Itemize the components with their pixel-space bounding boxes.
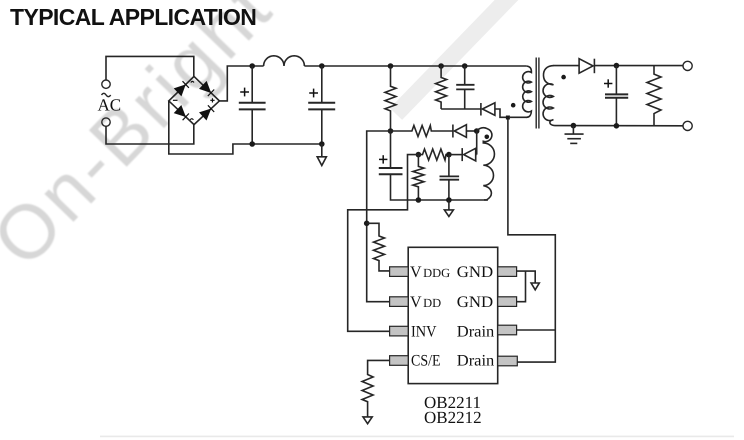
wire bridge negative to bottom rail: [169, 101, 322, 154]
resistor R3 to VDDG: [367, 223, 390, 271]
svg-text:GND: GND: [457, 294, 493, 311]
resistor R8 load: [647, 66, 661, 126]
snubber bottom wire: [441, 108, 481, 110]
capacitor C6 output: [605, 66, 628, 126]
wire AC neutral bottom: [106, 125, 194, 144]
INV feedback trace: [348, 155, 419, 332]
C1 plus sign: [240, 88, 249, 97]
pin CS/E box: [390, 356, 409, 366]
wire AC live top: [106, 56, 194, 80]
svg-text:Drain: Drain: [457, 323, 495, 340]
svg-text:On-Bright: On-Bright: [0, 0, 289, 283]
capacitor C1: [239, 66, 266, 144]
capacitor C5: [440, 155, 460, 200]
resistor R1 vertical under rail: [385, 66, 396, 131]
pin GND2 box: [498, 297, 517, 307]
C4 plus sign: [379, 155, 387, 163]
node rail C5 bottom: [446, 197, 452, 203]
wire node to VDD column: [367, 131, 391, 302]
drain1 branch wire: [517, 329, 556, 331]
ground arrow aux rail: [444, 200, 453, 217]
primary phase dot: [511, 103, 516, 108]
AC source terminal top: [102, 80, 110, 88]
secondary phase dot: [561, 75, 566, 80]
svg-text:CS/E: CS/E: [411, 353, 441, 370]
resistor R6 vertical divider: [413, 155, 424, 200]
capacitor C3 snubber: [456, 66, 474, 109]
capacitor C4 VDD electrolytic: [379, 131, 419, 200]
output diode D4: [579, 59, 683, 73]
bridge diode top-right: [200, 82, 214, 96]
diode D3: [462, 148, 477, 161]
output terminal bottom: [683, 121, 692, 130]
pin Drain2 box: [498, 356, 518, 366]
transformer core: [536, 58, 539, 129]
secondary top wire: [553, 65, 579, 67]
IC U1 body: [408, 247, 498, 383]
wire primary bottom: [510, 116, 527, 118]
aux winding T1c: [477, 128, 495, 200]
node VDD top junction: [388, 128, 394, 134]
node C3 top: [462, 63, 468, 69]
svg-text:VDDG: VDDG: [410, 264, 450, 281]
ground arrow primary rail: [317, 144, 326, 166]
aux ground rail wire: [418, 199, 488, 201]
bridge rectifier BD1 diamond: [169, 76, 220, 124]
node R1 top: [388, 63, 394, 69]
node secondary ground: [571, 123, 577, 129]
node C2 bottom: [319, 141, 325, 147]
bridge polarity marks: [173, 81, 215, 119]
capacitor C2: [308, 66, 335, 144]
IC ground arrow: [531, 283, 539, 290]
wire bridge+ to top rail: [219, 66, 263, 101]
C6 plus sign: [604, 79, 612, 87]
diode D2: [453, 125, 477, 138]
svg-text:GND: GND: [457, 264, 493, 281]
transformer primary winding: [523, 66, 532, 117]
pin INV box: [390, 326, 409, 336]
node C1 bottom: [249, 141, 255, 147]
AC source terminal bottom: [102, 118, 110, 126]
node cap2 top: [319, 63, 325, 69]
bridge diode bottom-right: [200, 105, 214, 119]
inductor L1: [264, 56, 305, 66]
node output cap bottom: [614, 123, 620, 129]
watermark swoosh band: [396, 0, 522, 114]
drain trace to IC: [508, 120, 555, 363]
node rail R6 bottom: [416, 197, 422, 203]
output terminal top: [683, 61, 692, 70]
pin VDDG box: [390, 267, 409, 277]
resistor R2 snubber: [436, 66, 447, 109]
secondary bottom wire: [555, 125, 684, 127]
wire to diode D3: [449, 154, 462, 156]
resistor R4 horizontal feedback top: [391, 126, 453, 137]
aux winding phase dot: [485, 135, 490, 140]
node VDDG branch: [364, 221, 370, 227]
diode D1 snubber: [481, 103, 506, 118]
bridge diode top-left: [175, 81, 189, 95]
svg-text:Drain: Drain: [457, 353, 495, 370]
node output cap top: [614, 63, 620, 69]
svg-text:OB2212: OB2212: [424, 408, 482, 427]
faint page rule bottom: [100, 435, 734, 437]
wire diode D3 link: [476, 131, 478, 155]
C2 plus sign: [309, 89, 318, 98]
svg-text:VDD: VDD: [410, 294, 441, 311]
node aux winding top: [474, 128, 480, 134]
pin VDD box: [390, 297, 409, 307]
AC tilde: [102, 93, 111, 96]
top rail wire: [304, 65, 526, 67]
GND pin wiring: [517, 271, 536, 282]
node R2 top: [438, 63, 444, 69]
pin Drain1 box: [498, 325, 517, 335]
svg-text:AC: AC: [98, 96, 122, 115]
drain node square: [506, 116, 510, 120]
earth ground secondary: [565, 126, 584, 144]
node cap1 top: [249, 63, 255, 69]
bridge diode bottom-left: [175, 106, 189, 120]
GND2 branch: [517, 271, 526, 302]
sense ground arrow: [363, 417, 372, 424]
resistor R5 horizontal: [418, 149, 449, 160]
pin GND1 box: [498, 267, 517, 277]
node divider mid: [446, 152, 452, 158]
node divider left: [416, 152, 422, 158]
transformer secondary winding: [543, 66, 554, 126]
resistor R7 current sense: [362, 360, 390, 417]
svg-text:INV: INV: [411, 323, 437, 340]
